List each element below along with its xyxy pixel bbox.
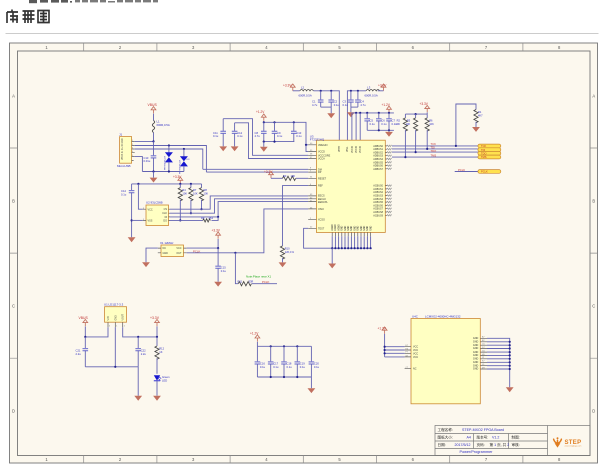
title block — [435, 426, 590, 456]
capacitor C9 0.1u — [272, 122, 283, 141]
capacitor C13 0.01u — [144, 141, 157, 171]
port PCLK — [478, 170, 501, 174]
wire bank top rail — [257, 345, 311, 347]
svg-text:R2: R2 — [397, 118, 401, 122]
svg-text:X1 12MHz: X1 12MHz — [160, 241, 174, 245]
svg-text:0.1u: 0.1u — [334, 103, 340, 107]
svg-text:R12: R12 — [159, 347, 164, 351]
title block row2 — [438, 435, 520, 440]
wire X1 OUT to R11 — [187, 209, 309, 284]
power flag +3.3V (JTAG pullups) — [420, 102, 430, 114]
grid row labels left — [12, 93, 15, 413]
power flag +3.3V (right of L3) — [378, 84, 388, 91]
svg-text:0.1u: 0.1u — [343, 103, 349, 107]
svg-text:GND: GND — [351, 225, 353, 230]
svg-text:工程名称:: 工程名称: — [438, 427, 453, 432]
svg-text:1K: 1K — [159, 350, 162, 354]
wire DP long — [206, 171, 308, 173]
capacitor C5 0.1u — [364, 113, 375, 130]
svg-text:NC: NC — [413, 368, 417, 371]
svg-text:LCMXO2-4000HC-4MG132: LCMXO2-4000HC-4MG132 — [425, 314, 461, 318]
power flag +1.2V (bank) — [250, 331, 260, 346]
power flag +3.3V (reg out) — [150, 316, 160, 337]
svg-text:PCLK: PCLK — [262, 280, 269, 284]
svg-text:OUT: OUT — [176, 252, 182, 255]
capacitor C20 0.1u — [309, 346, 320, 377]
capacitor C14 0.1u — [121, 184, 134, 237]
svg-text:TMS: TMS — [431, 153, 437, 157]
svg-text:AGND: AGND — [331, 224, 334, 231]
svg-text:VCCIO: VCCIO — [360, 146, 362, 153]
svg-text:C16: C16 — [260, 361, 265, 365]
svg-text:C9: C9 — [277, 131, 281, 135]
wire U3 TEST to gnd bus — [304, 228, 371, 248]
capacitor C15 0.1u (X1 bypass) — [215, 248, 226, 282]
svg-text:VPLL: VPLL — [347, 146, 349, 152]
capacitor C16 0.1u — [255, 346, 266, 377]
svg-text:C3: C3 — [343, 99, 347, 103]
svg-text:J1: J1 — [119, 133, 123, 137]
connector J1 MicroUSB — [117, 133, 135, 168]
svg-text:B: B — [12, 198, 15, 203]
inductor L3 600R,0.5A — [365, 86, 380, 98]
svg-text:0.1u: 0.1u — [287, 365, 293, 369]
svg-text:L2: L2 — [301, 86, 305, 90]
svg-text:600R,0.5A: 600R,0.5A — [157, 123, 170, 127]
ground (X1) — [142, 262, 150, 267]
svg-text:10K: 10K — [193, 191, 198, 195]
svg-text:A4: A4 — [467, 436, 471, 440]
ground (FPGA) — [506, 387, 514, 392]
ground (bank) — [308, 377, 316, 393]
svg-text:VCC: VCC — [176, 247, 181, 250]
wire VOUT rail to +3.3V — [84, 327, 158, 338]
svg-text:NC: NC — [163, 247, 167, 250]
svg-text:R5: R5 — [407, 118, 411, 122]
ground (R1) — [472, 127, 480, 132]
oscillator X1 12MHz — [158, 241, 187, 257]
svg-text:VCCIO: VCCIO — [352, 146, 354, 153]
capacitor C4 4.7u — [355, 91, 366, 107]
svg-text:R8: R8 — [204, 188, 208, 192]
svg-text:VPHY: VPHY — [339, 145, 341, 152]
svg-text:V1.2: V1.2 — [492, 436, 499, 440]
wire regulator gnd rail — [85, 366, 138, 368]
U3 left pin stubs — [308, 145, 316, 229]
inductor L1 600R,0.5A — [152, 120, 170, 133]
wire J1 GND pin5 — [135, 157, 143, 172]
svg-text:C4: C4 — [360, 99, 364, 103]
svg-text:ACBUS9: ACBUS9 — [373, 214, 383, 217]
wire FPGA GND bus — [487, 338, 511, 387]
svg-text:C22: C22 — [141, 348, 146, 352]
svg-text:C20: C20 — [314, 361, 319, 365]
capacitor C1 4.7u — [312, 91, 324, 107]
svg-text:GND: GND — [358, 225, 360, 230]
svg-text:0.1u: 0.1u — [277, 134, 283, 138]
svg-text:GND: GND — [364, 225, 366, 230]
svg-text:2.2u: 2.2u — [141, 352, 147, 356]
grid row labels right — [592, 93, 595, 413]
wire EEDATA net U2-U3 — [170, 202, 308, 218]
svg-text:Green: Green — [162, 375, 170, 379]
svg-text:C12: C12 — [237, 131, 242, 135]
svg-text:C13: C13 — [144, 156, 149, 160]
capacitor C12 0.1u — [232, 123, 243, 147]
capacitor C3 0.1u — [343, 91, 354, 107]
power flag +3.3V (pullup rail) — [173, 175, 183, 184]
power flag +1.2V (FPGA VCC) — [378, 326, 388, 357]
svg-text:0.1u: 0.1u — [213, 134, 219, 138]
wire C3-C4 gnd rail + ground — [347, 107, 358, 117]
svg-text:10K: 10K — [395, 122, 400, 126]
ground (R10) — [279, 262, 287, 267]
svg-text:10K: 10K — [291, 174, 296, 178]
svg-text:10K: 10K — [406, 122, 411, 126]
resistor R10 12K 1% (REF) — [280, 186, 308, 263]
power flag VBUS (top of L1) — [148, 103, 158, 121]
svg-text:Power/Programmer: Power/Programmer — [460, 450, 494, 454]
svg-text:TDO: TDO — [481, 151, 486, 155]
right margin row ticks — [590, 148, 598, 358]
svg-text:C: C — [12, 303, 15, 308]
svg-text:TEST: TEST — [318, 227, 325, 230]
IC U1 LD1117-3.3 — [104, 302, 127, 327]
svg-text:D: D — [12, 408, 15, 413]
ground (USB shield) — [150, 172, 158, 183]
svg-text:GND: GND — [354, 225, 356, 230]
svg-text:C10: C10 — [296, 131, 301, 135]
svg-text:GND: GND — [367, 225, 369, 230]
svg-text:PCLK: PCLK — [481, 170, 488, 174]
power flag VBUS (reg in) — [79, 316, 89, 337]
svg-text:GND: GND — [361, 225, 363, 230]
svg-text:VCCD: VCCD — [318, 151, 325, 154]
svg-text:OSCI: OSCI — [318, 208, 324, 211]
svg-text:RESET: RESET — [318, 177, 327, 180]
svg-text:日期:: 日期: — [438, 442, 446, 447]
capacitor C8 4.7u — [255, 122, 267, 141]
wire L1 to VBUS net — [153, 133, 155, 142]
svg-text:C5: C5 — [370, 118, 374, 122]
svg-text:AGND: AGND — [334, 224, 337, 231]
svg-text:L3: L3 — [367, 86, 371, 90]
svg-text:GND: GND — [348, 225, 350, 230]
ground (C12) — [231, 146, 239, 151]
U3 bottom pin stubs — [332, 232, 370, 236]
wire C1-C2 gnd rail + ground — [321, 107, 335, 118]
resistor R8 10K (pullup EEDATA) — [199, 184, 208, 210]
svg-text:0.1u: 0.1u — [296, 134, 302, 138]
resistor R3 10K (RESET) — [271, 174, 308, 181]
svg-text:VREGIN: VREGIN — [318, 144, 328, 147]
svg-text:C: C — [592, 303, 595, 308]
svg-text:GND: GND — [473, 347, 479, 350]
capacitor C17 0.1u — [268, 346, 279, 377]
svg-text:C8: C8 — [255, 131, 259, 135]
svg-text:U1 LD1117-3.3: U1 LD1117-3.3 — [104, 302, 124, 306]
svg-text:R4: R4 — [182, 188, 186, 192]
svg-text:VCC: VCC — [413, 352, 418, 355]
capacitor C22 2.2u — [135, 337, 146, 367]
svg-text:33R: 33R — [249, 279, 254, 283]
STEP logo — [554, 437, 582, 447]
svg-text:A: A — [12, 93, 15, 98]
wire FPGA VCC feeds — [384, 346, 405, 357]
svg-text:GND: GND — [163, 252, 169, 255]
wire X1 GND — [146, 248, 158, 262]
svg-text:EEDATA: EEDATA — [318, 201, 328, 204]
svg-text:VCC: VCC — [148, 208, 153, 211]
resistor R2 10K (pullup) — [395, 114, 407, 157]
title block row3 — [438, 442, 520, 447]
wire DM long — [203, 168, 308, 170]
svg-text:0.1u: 0.1u — [221, 269, 227, 273]
svg-text:4K7: 4K7 — [478, 113, 483, 117]
wire U2 VSS to C14 column — [132, 219, 143, 221]
svg-text:STEP-MXO2 FPGA Board: STEP-MXO2 FPGA Board — [462, 428, 504, 432]
svg-text:GND: GND — [345, 225, 347, 230]
svg-text:C1: C1 — [312, 99, 316, 103]
grid column labels top — [45, 45, 561, 50]
wire TCK — [392, 142, 478, 147]
svg-text:0.01u: 0.01u — [144, 159, 151, 163]
svg-text:C2: C2 — [334, 99, 338, 103]
ground (LED) — [153, 396, 161, 401]
svg-text:+3.3V: +3.3V — [212, 229, 221, 233]
svg-text:0.1u: 0.1u — [381, 122, 387, 126]
wire TDO — [392, 149, 478, 153]
svg-text:R6: R6 — [429, 118, 433, 122]
bottom margin column ticks — [84, 456, 523, 464]
grid column labels bottom — [45, 457, 561, 462]
wire bank bottom rail — [257, 376, 311, 378]
resistor R6 10K (pullup) — [425, 114, 434, 149]
wire D+: J1 pin3 right then down to DM — [135, 148, 203, 169]
svg-text:GND: GND — [342, 225, 344, 230]
svg-text:XCSO: XCSO — [318, 219, 325, 222]
ground (U3 bus) — [328, 248, 336, 268]
svg-text:B: B — [592, 198, 595, 203]
TVS diode D3 PRTR5V0U2X (on D+) — [180, 149, 191, 174]
svg-text:C18: C18 — [287, 361, 292, 365]
IC U4C LCMXO2-4000HC-4MG132 — [405, 314, 487, 403]
svg-text:C17: C17 — [273, 361, 278, 365]
svg-text:R1: R1 — [478, 110, 482, 114]
resistor R4 10K (pullup EECS) — [178, 184, 187, 222]
svg-text:VCCA: VCCA — [318, 158, 325, 161]
svg-text:0.1u: 0.1u — [370, 122, 376, 126]
power flag +3.3V (X1) — [212, 229, 221, 249]
wire USB ground rail — [142, 170, 184, 172]
wire VREGIN top rail — [263, 121, 309, 151]
svg-text:4.7u: 4.7u — [255, 134, 261, 138]
svg-text:C6: C6 — [381, 118, 385, 122]
IC U2 93LC56B — [143, 201, 170, 226]
svg-text:R3: R3 — [283, 174, 287, 178]
svg-text:A: A — [592, 93, 595, 98]
svg-text:VBUS D- D+ ID GND: VBUS D- D+ ID GND — [122, 138, 124, 160]
wire EECS net U2-U3 — [170, 196, 308, 209]
svg-text:R11: R11 — [238, 279, 243, 283]
svg-text:0.1u: 0.1u — [121, 193, 127, 197]
capacitor C10 0.1u — [291, 122, 302, 141]
svg-text:0.1u: 0.1u — [314, 365, 320, 369]
wire C8-C10 ground rail — [263, 141, 295, 143]
svg-text:+3.3V: +3.3V — [150, 316, 160, 320]
wire VCCCORE wrap (C11 to U3) — [223, 119, 308, 156]
svg-text:PCLK: PCLK — [458, 168, 465, 172]
svg-text:DO: DO — [163, 219, 167, 222]
svg-text:0.1u: 0.1u — [300, 365, 306, 369]
svg-text:0.1u: 0.1u — [237, 134, 243, 138]
wire L2 to VPHY riser — [313, 90, 339, 140]
svg-text:图纸大小:: 图纸大小: — [438, 435, 453, 440]
wire L3 to VPLL riser — [347, 90, 366, 140]
svg-text:2017/5/12: 2017/5/12 — [455, 443, 471, 447]
capacitor C6 0.1u — [376, 113, 387, 130]
svg-text:10K: 10K — [204, 191, 209, 195]
svg-text:页码:: 页码: — [477, 442, 485, 447]
svg-text:TMS: TMS — [481, 155, 487, 159]
svg-text:制图:: 制图: — [512, 435, 520, 440]
wire PLL bank gnd rail + ground — [367, 129, 394, 137]
svg-text:版本号:: 版本号: — [477, 435, 489, 440]
capacitor C7 0.1u — [386, 113, 397, 130]
port TDI — [478, 148, 501, 152]
svg-text:ADBUS7: ADBUS7 — [373, 168, 383, 171]
capacitor C21 2.2u — [76, 337, 89, 367]
svg-text:R9: R9 — [201, 216, 205, 220]
svg-text:12K,1%: 12K,1% — [285, 250, 295, 254]
wire U1 GND down — [114, 327, 116, 367]
svg-text:VBUS: VBUS — [79, 316, 89, 320]
svg-text:DP: DP — [318, 171, 322, 174]
svg-text:审核:: 审核: — [512, 442, 520, 447]
capacitor C19 0.1u — [295, 346, 306, 377]
svg-text:C11: C11 — [213, 131, 218, 135]
resistor R9 2K2 (DO series) — [170, 216, 218, 222]
svg-text:AGND: AGND — [337, 224, 340, 231]
svg-text:C14: C14 — [121, 189, 126, 193]
svg-text:10K: 10K — [182, 191, 187, 195]
svg-text:VOUT: VOUT — [123, 313, 125, 320]
inductor L2 600R,0.5A — [299, 86, 314, 98]
resistor R12 1K (LED) — [155, 337, 165, 374]
svg-text:TDO: TDO — [431, 149, 437, 153]
U3 right pin stubs with series dampers — [385, 145, 391, 216]
wire EECLK net U2-U3 — [170, 199, 308, 213]
page header: cut-off board-size text — [29, 0, 158, 3]
svg-text:VBUS: VBUS — [148, 103, 158, 107]
ground (C14/U2 VSS) — [128, 237, 136, 242]
svg-text:U2 93LC56B: U2 93LC56B — [146, 201, 163, 205]
wire JTAG pullup rail — [405, 113, 427, 115]
svg-text:PRTR5V0U2X: PRTR5V0U2X — [165, 155, 167, 170]
ground (C8 rail) — [260, 142, 268, 152]
svg-text:VIN: VIN — [108, 316, 110, 320]
svg-text:REF: REF — [318, 185, 323, 188]
svg-text:0.1u: 0.1u — [273, 365, 279, 369]
title block row1: project name — [438, 427, 504, 432]
svg-text:VCC: VCC — [413, 356, 418, 359]
wire X1 VCC to +3.3V — [187, 247, 220, 254]
svg-text:4.7u: 4.7u — [360, 103, 366, 107]
svg-text:FT2232HQ: FT2232HQ — [310, 138, 325, 142]
power flag +1.2V (VREGIN rail) — [256, 110, 266, 122]
capacitor C2 0.1u — [328, 91, 339, 107]
ground (regulator) — [134, 367, 142, 401]
svg-text:2.2u: 2.2u — [76, 352, 82, 356]
wire VBUS: J1 pin1 to L1/C13 — [135, 140, 155, 142]
svg-text:U4C: U4C — [412, 314, 418, 318]
port TMS — [478, 155, 501, 159]
svg-text:GND: GND — [473, 368, 479, 371]
ground (C15) — [214, 282, 222, 287]
ground (C11) — [219, 146, 227, 151]
svg-text:www.stepfpga.com: www.stepfpga.com — [565, 445, 582, 448]
svg-text:R7: R7 — [193, 188, 197, 192]
svg-text:CS: CS — [164, 208, 168, 211]
svg-text:R10: R10 — [285, 246, 290, 250]
svg-text:C21: C21 — [76, 348, 81, 352]
power flag +3.3V (RESET pullup) — [264, 170, 273, 178]
page title 原理图 (drawn strokes) — [7, 10, 49, 24]
svg-text:600R,0.5A: 600R,0.5A — [299, 94, 312, 98]
svg-text:4.7u: 4.7u — [312, 103, 318, 107]
capacitor C11 0.1u — [213, 119, 226, 147]
resistor R1 4K7 (TCK pulldown) — [456, 104, 483, 146]
wire PCLK stub — [455, 168, 478, 172]
wire TMS — [392, 153, 478, 158]
svg-text:VSS: VSS — [148, 219, 153, 222]
svg-text:D: D — [592, 408, 595, 413]
svg-text:10K: 10K — [429, 122, 434, 126]
svg-text:MicroUSB: MicroUSB — [117, 164, 131, 168]
svg-text:C15: C15 — [221, 266, 226, 270]
wire TDI — [392, 146, 478, 150]
wire +3.3V rail — [132, 183, 202, 185]
wire D-: J1 pin2 right then down to DP — [135, 144, 207, 172]
svg-text:第 1 页, 共 2: 第 1 页, 共 2 — [490, 442, 510, 447]
port TDO — [478, 151, 501, 155]
power flag +1.2V (PLL bank) — [382, 103, 392, 113]
resistor R5 10K (pullup) — [406, 114, 418, 152]
svg-text:CLK: CLK — [162, 212, 167, 215]
wire PLL cap bank top rail — [352, 112, 394, 114]
wire U2 VCC to rail — [138, 184, 142, 209]
svg-text:600R,0.5A: 600R,0.5A — [365, 94, 378, 98]
wire U3 bottom gnd bus drops — [331, 236, 372, 249]
LED D1 Green — [154, 375, 170, 396]
svg-text:LED: LED — [162, 378, 167, 382]
capacitor C18 0.1u — [281, 346, 292, 377]
svg-text:2K2: 2K2 — [209, 216, 214, 220]
grey rule under title — [6, 33, 599, 34]
port TCK — [478, 144, 501, 148]
svg-text:0.1u: 0.1u — [260, 365, 266, 369]
left margin row ticks — [10, 148, 18, 358]
resistor R7 10K (pullup EECLK) — [189, 184, 198, 214]
svg-text:VCCIO: VCCIO — [356, 146, 358, 153]
svg-text:C19: C19 — [300, 361, 305, 365]
svg-text:Note:Place near X1: Note:Place near X1 — [246, 274, 271, 278]
svg-text:GND: GND — [370, 225, 372, 230]
svg-text:C7: C7 — [392, 118, 396, 122]
TVS diode D2 PRTR5V0U2X (on D-) — [165, 146, 173, 172]
power flag +3.3V (left of L2) — [283, 84, 300, 91]
top margin column ticks — [84, 43, 523, 51]
